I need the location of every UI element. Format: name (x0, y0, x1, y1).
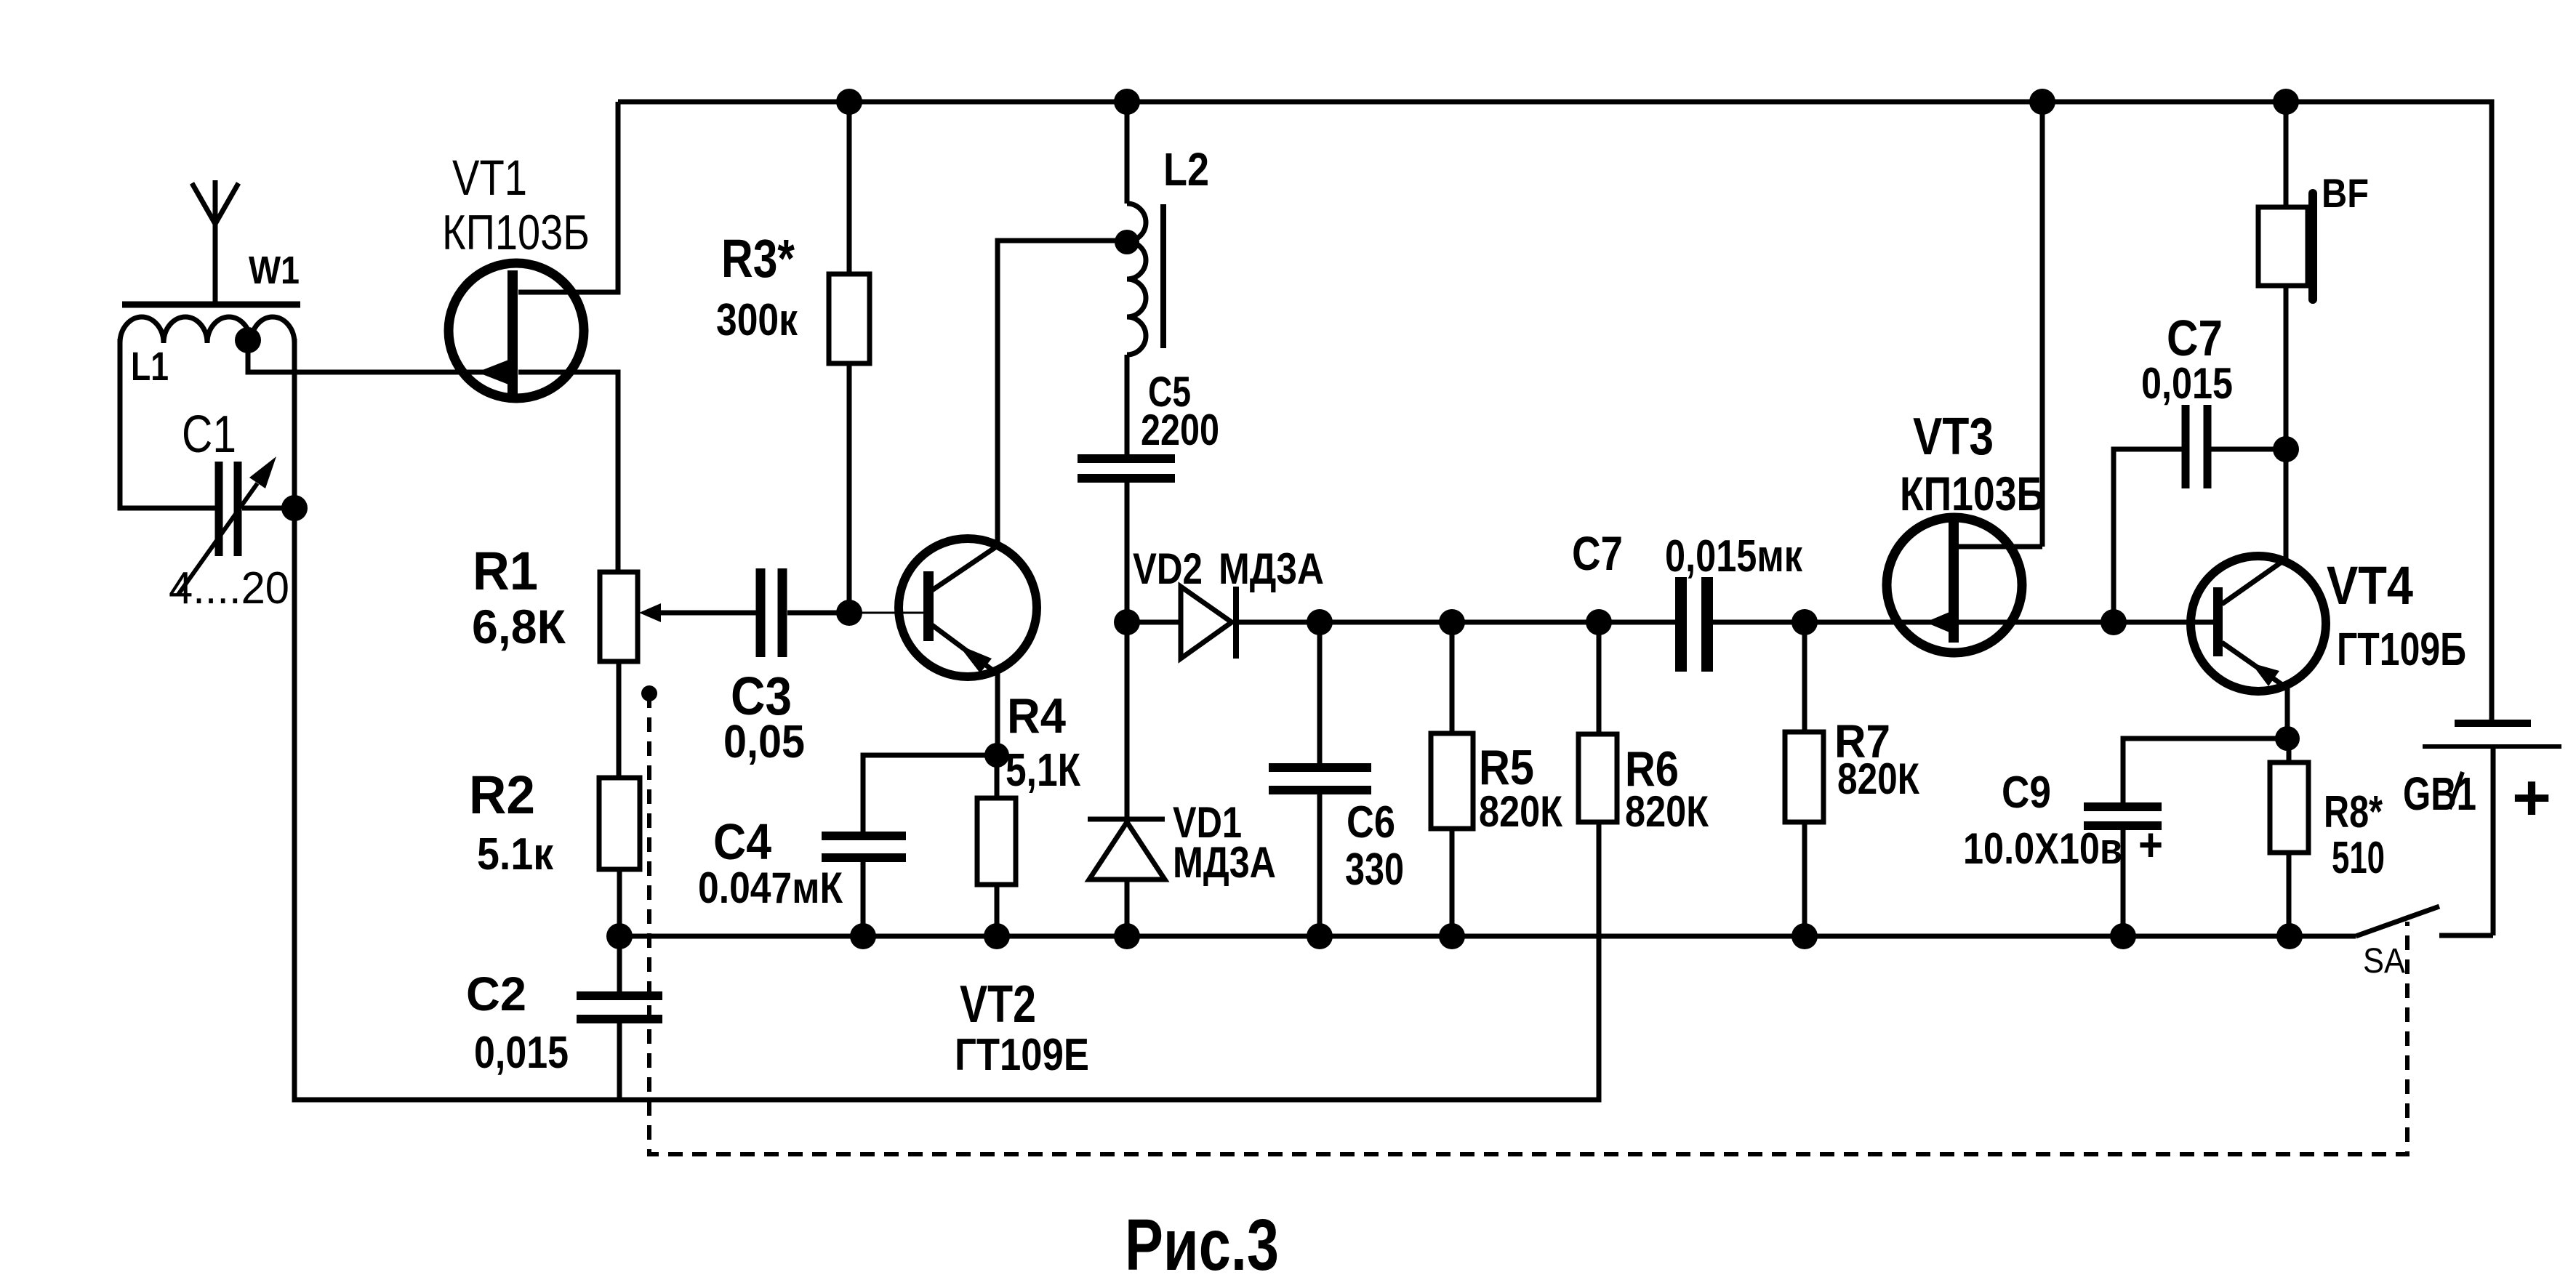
capacitor C4 (698, 813, 906, 936)
wire R1 to R2 (617, 661, 622, 778)
transistor VT3 (1887, 408, 2114, 653)
node VT3 source / C7 right (2100, 609, 2127, 635)
svg-text:L1: L1 (131, 343, 169, 389)
capacitor C1 variable (169, 406, 294, 613)
resistor R8 (2270, 738, 2385, 936)
svg-text:0.047мК: 0.047мК (698, 864, 843, 912)
svg-text:5.1к: 5.1к (477, 829, 554, 880)
resistor R3 (716, 102, 870, 613)
svg-text:+: + (2512, 762, 2551, 834)
svg-text:VT2: VT2 (960, 975, 1036, 1034)
resistor R6 (1578, 622, 1709, 836)
speaker BF (2258, 102, 2369, 449)
node R5 top (1439, 609, 1465, 635)
svg-text:R1: R1 (473, 541, 538, 601)
ground rail (619, 934, 2290, 939)
svg-text:W1: W1 (249, 249, 300, 292)
battery GB1 (2403, 723, 2561, 935)
svg-text:0,05: 0,05 (723, 715, 805, 768)
wire top supply rail (618, 102, 2492, 720)
wire R2 to ground rail (617, 869, 622, 936)
antenna W1 (122, 180, 300, 305)
node VT3 drain (2029, 89, 2055, 115)
capacitor C7 right 0,015 (2114, 310, 2286, 622)
node R3 top (836, 89, 862, 115)
node L2 top (1114, 89, 1140, 115)
resistor R2 (469, 765, 640, 880)
svg-text:C1: C1 (182, 406, 236, 464)
svg-text:4....20: 4....20 (169, 563, 289, 613)
svg-text:VD2: VD2 (1133, 544, 1203, 593)
svg-text:330: 330 (1345, 845, 1404, 895)
svg-text:R2: R2 (469, 765, 535, 825)
wire L1 tap to VT1 gate (248, 341, 509, 372)
svg-text:6,8К: 6,8К (472, 600, 566, 653)
node C9 ground (2110, 923, 2136, 949)
node L2 tap (1115, 230, 1139, 254)
svg-text:GB1: GB1 (2403, 768, 2476, 820)
svg-text:2200: 2200 (1141, 406, 1219, 454)
node R7 ground (1791, 923, 1818, 949)
node VD1 ground (1114, 923, 1140, 949)
wire VT1 source to R1 (518, 372, 618, 572)
wire R1 wiper to C3 (659, 611, 757, 616)
wire R4 node to C4 (863, 755, 997, 832)
node BF top (2273, 89, 2299, 115)
svg-text:R3*: R3* (721, 228, 795, 289)
capacitor C7 mid 0,015мк (1572, 526, 1805, 672)
resistor R7 (1785, 622, 1919, 936)
node VT2 emitter / R4 (984, 743, 1009, 768)
wire VT4 collector (2284, 449, 2289, 559)
node VT4 emitter (2275, 726, 2300, 751)
resistor R4 (977, 688, 1081, 936)
svg-text:820К: 820К (1625, 787, 1709, 836)
svg-text:C9: C9 (2002, 768, 2051, 818)
transistor VT4 (2191, 555, 2466, 691)
svg-text:R4: R4 (1007, 688, 1066, 744)
node R7 top (1791, 609, 1818, 635)
wire VT3 to VT4 base (2114, 620, 2215, 625)
svg-text:VT3: VT3 (1913, 408, 1994, 466)
svg-text:L2: L2 (1163, 143, 1209, 196)
node C2 ground (606, 923, 633, 949)
capacitor C5 (1078, 369, 1219, 622)
svg-text:КП103Б: КП103Б (442, 205, 590, 260)
svg-text:C4: C4 (713, 813, 771, 870)
wire VT2 collector to L2 tap (998, 241, 1127, 546)
svg-text:0,015: 0,015 (2141, 359, 2233, 408)
svg-text:R8*: R8* (2324, 787, 2383, 837)
capacitor C6 (1269, 622, 1404, 936)
capacitor C2 (466, 936, 662, 1100)
svg-text:BF: BF (2322, 170, 2369, 216)
capacitor C9 (1963, 768, 2163, 936)
node C4 ground (850, 923, 876, 949)
node switch / R8 bottom (2276, 923, 2303, 949)
svg-text:0,015мк: 0,015мк (1665, 531, 1803, 581)
wire VT2 emitter to R4 (995, 674, 1000, 755)
svg-text:820К: 820К (1479, 787, 1562, 836)
wire VT4 emitter (2285, 688, 2290, 738)
svg-text:Рис.3: Рис.3 (1125, 1204, 1279, 1286)
svg-text:300к: 300к (716, 295, 798, 345)
wire VT1 drain riser (518, 102, 618, 292)
node R4 ground (984, 923, 1010, 949)
svg-text:C7: C7 (2167, 310, 2223, 366)
svg-text:+: + (2138, 818, 2163, 871)
node detector input (1114, 609, 1140, 635)
wire emitter to C9 (2123, 738, 2287, 802)
svg-text:C6: C6 (1347, 797, 1395, 848)
svg-text:МД3А: МД3А (1173, 838, 1276, 887)
svg-text:КП103Б: КП103Б (1900, 467, 2045, 520)
svg-text:SA: SA (2363, 942, 2405, 981)
resistor R5 (1431, 622, 1562, 936)
transistor VT2 (899, 539, 1089, 1080)
inductor L1 (120, 317, 294, 389)
svg-text:VT4: VT4 (2327, 555, 2413, 616)
diode VD1 (1088, 622, 1276, 936)
wire tuned circuit return (L1 right end, C1, down and along bottom to R6) (294, 339, 1599, 1100)
svg-text:820К: 820К (1837, 754, 1919, 803)
node R3 bottom / C3 (836, 600, 862, 626)
svg-text:ГТ109Б: ГТ109Б (2337, 623, 2466, 675)
svg-text:10.0Х10в: 10.0Х10в (1963, 824, 2122, 873)
dashed enclosure link (641, 685, 2407, 1154)
svg-text:510: 510 (2332, 833, 2385, 883)
svg-text:0,015: 0,015 (474, 1028, 569, 1078)
wire VT3 drain riser (2040, 102, 2045, 547)
node L1 tap (235, 327, 261, 353)
switch SA (2290, 906, 2439, 981)
svg-text:МД3А: МД3А (1219, 544, 1324, 593)
node R5 ground (1439, 923, 1465, 949)
svg-text:C2: C2 (466, 967, 526, 1021)
svg-text:С7: С7 (1572, 526, 1623, 580)
diode VD2 (1127, 544, 1324, 659)
node C1 right (281, 495, 308, 521)
svg-text:5,1К: 5,1К (1006, 744, 1081, 796)
svg-text:VT1: VT1 (452, 150, 527, 206)
transistor VT1 (442, 150, 590, 398)
wire C7 to VT3 gate (1805, 620, 1951, 625)
wire C3 to VT2 base thin (849, 612, 928, 614)
node C6 top (1307, 609, 1333, 635)
inductor L2 (1127, 102, 1209, 454)
node R6 top / C7 left (1586, 609, 1612, 635)
resistor R1 potentiometer (472, 541, 661, 661)
svg-text:ГТ109Е: ГТ109Е (955, 1030, 1089, 1080)
node C6 ground (1307, 923, 1333, 949)
node C7 right / BF (2273, 436, 2299, 462)
capacitor C3 (723, 568, 849, 768)
wire detector line VD2 to C7 (1320, 620, 1677, 625)
wire L1 left end to C1 (120, 339, 215, 508)
